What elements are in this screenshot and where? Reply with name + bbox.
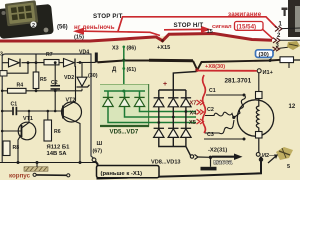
svg-text:нг день/ночь: нг день/ночь	[74, 24, 115, 31]
svg-text:VD4: VD4	[79, 49, 89, 55]
svg-text:(30): (30)	[88, 73, 98, 79]
svg-text:сигнал: сигнал	[212, 24, 232, 30]
svg-text:5: 5	[287, 164, 290, 170]
svg-text:R7: R7	[46, 52, 53, 58]
svg-text:VT1: VT1	[23, 116, 33, 122]
svg-text:(15): (15)	[74, 34, 84, 40]
svg-text:Х5: Х5	[189, 120, 196, 126]
svg-text:С2: С2	[207, 107, 214, 113]
svg-text:корпус: корпус	[9, 173, 31, 180]
svg-text:Х4: Х4	[190, 110, 198, 116]
svg-text:15: 15	[207, 29, 213, 35]
svg-text:Д: Д	[112, 67, 117, 73]
svg-text:зажигание: зажигание	[228, 11, 262, 18]
svg-text:VD2: VD2	[64, 75, 74, 81]
svg-text:VD8...VD13: VD8...VD13	[151, 160, 181, 166]
svg-text:И1+: И1+	[263, 70, 274, 76]
svg-text:(15/54): (15/54)	[237, 23, 257, 30]
svg-text:-Х2(31): -Х2(31)	[208, 147, 227, 153]
svg-text:R5: R5	[40, 77, 47, 83]
svg-text:(61): (61)	[127, 67, 137, 73]
svg-text:+: +	[163, 81, 167, 88]
svg-text:С1: С1	[11, 101, 18, 107]
svg-text:(86): (86)	[127, 46, 137, 52]
svg-text:3: 3	[0, 52, 3, 58]
svg-text:R4: R4	[17, 83, 24, 89]
svg-text:(56): (56)	[57, 25, 68, 31]
svg-text:VT2: VT2	[66, 98, 76, 104]
svg-text:масса: масса	[214, 159, 233, 166]
svg-text:STOP Р/Т: STOP Р/Т	[93, 13, 123, 20]
svg-text:STOP Н/Т: STOP Н/Т	[174, 22, 204, 29]
svg-text:C2: C2	[51, 80, 58, 86]
svg-text:R6: R6	[54, 129, 61, 135]
svg-text:(30): (30)	[259, 52, 269, 58]
svg-text:Я112 Б1: Я112 Б1	[47, 145, 71, 151]
svg-text:VD5...VD7: VD5...VD7	[110, 129, 139, 136]
svg-text:Х7: Х7	[190, 101, 197, 107]
svg-text:R8: R8	[13, 145, 20, 151]
svg-text:С1: С1	[209, 88, 216, 94]
svg-text:+Х8(30): +Х8(30)	[205, 64, 225, 70]
svg-text:+Х15: +Х15	[157, 45, 170, 51]
svg-text:14В 5А: 14В 5А	[47, 151, 68, 157]
svg-text:281.3701: 281.3701	[225, 78, 252, 85]
svg-text:Ш: Ш	[97, 141, 103, 147]
svg-text:(раньше к -Х1): (раньше к -Х1)	[101, 171, 143, 177]
svg-text:2: 2	[32, 23, 35, 29]
svg-text:12: 12	[289, 104, 296, 110]
svg-text:Х3: Х3	[112, 45, 119, 51]
svg-text:(67): (67)	[93, 149, 103, 155]
